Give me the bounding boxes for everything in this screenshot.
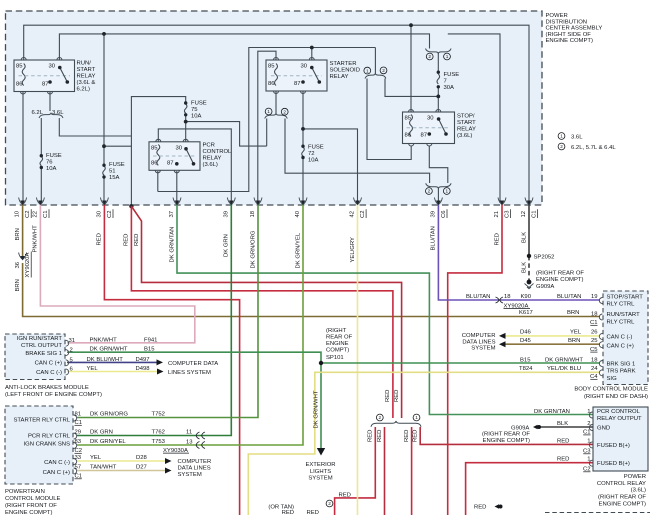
svg-text:FUSE: FUSE bbox=[109, 162, 125, 168]
svg-text:51: 51 bbox=[109, 169, 116, 175]
svg-text:(RIGHT FRONT OF: (RIGHT FRONT OF bbox=[5, 503, 57, 509]
svg-text:30: 30 bbox=[301, 64, 308, 70]
junction fuse72 tee bbox=[301, 127, 305, 131]
svg-text:30: 30 bbox=[427, 116, 434, 122]
svg-text:RED: RED bbox=[124, 234, 130, 246]
svg-text:BRN: BRN bbox=[15, 228, 21, 240]
splice dot SP2052 on BLK bbox=[527, 254, 531, 258]
svg-text:C1: C1 bbox=[532, 210, 538, 218]
junction W3/starter30 bbox=[310, 46, 314, 50]
svg-text:FUSE: FUSE bbox=[308, 145, 324, 151]
svg-text:LINES SYSTEM: LINES SYSTEM bbox=[168, 370, 211, 376]
svg-text:85: 85 bbox=[268, 64, 275, 70]
exterior lights label bbox=[305, 462, 335, 482]
relay U1 RUN/START RELAY bbox=[14, 58, 75, 95]
svg-text:CAN C (-): CAN C (-) bbox=[607, 334, 633, 340]
svg-text:1: 1 bbox=[267, 109, 270, 114]
svg-text:33: 33 bbox=[75, 455, 82, 461]
svg-text:RED: RED bbox=[307, 510, 319, 515]
svg-text:K90: K90 bbox=[521, 294, 532, 300]
svg-text:2: 2 bbox=[70, 347, 73, 353]
svg-text:ENGINE: ENGINE bbox=[326, 341, 349, 347]
svg-text:STOP/START: STOP/START bbox=[607, 295, 644, 301]
wire BRN BCM D45 CAN C(+) bbox=[506, 343, 601, 345]
svg-text:CONTROL: CONTROL bbox=[203, 149, 233, 155]
svg-text:2: 2 bbox=[378, 415, 381, 420]
svg-text:6.2L): 6.2L) bbox=[77, 87, 90, 93]
svg-text:76: 76 bbox=[46, 160, 53, 166]
svg-text:RED: RED bbox=[557, 438, 569, 444]
svg-text:85: 85 bbox=[16, 64, 23, 70]
border crossing connector symbols at PDC bottom bbox=[19, 198, 533, 205]
svg-text:DK GRN/ORG: DK GRN/ORG bbox=[90, 412, 128, 418]
svg-text:39: 39 bbox=[430, 211, 436, 218]
svg-text:87: 87 bbox=[294, 81, 301, 87]
svg-text:87: 87 bbox=[42, 82, 49, 88]
svg-text:31: 31 bbox=[69, 338, 76, 344]
svg-text:1: 1 bbox=[587, 438, 590, 444]
connector crossing pin 30 arrowhead bbox=[102, 201, 107, 206]
svg-text:BODY CONTROL MODULE: BODY CONTROL MODULE bbox=[574, 387, 648, 393]
svg-text:POWER: POWER bbox=[546, 13, 568, 19]
svg-text:TAN/WHT: TAN/WHT bbox=[90, 465, 117, 471]
wire W2a: run/start relay pin 30 rail to fuse7 brace left arm bbox=[59, 34, 429, 60]
arrow to computer data lines (PCM D28) bbox=[165, 458, 172, 464]
svg-text:85: 85 bbox=[405, 116, 412, 122]
junction dots inside PDC bbox=[102, 23, 440, 208]
svg-text:ENGINE COMPT): ENGINE COMPT) bbox=[546, 38, 593, 44]
svg-text:CAN C (-): CAN C (-) bbox=[44, 460, 70, 466]
svg-text:6.2L: 6.2L bbox=[32, 110, 44, 116]
svg-text:YEL/GRY: YEL/GRY bbox=[350, 237, 356, 263]
svg-text:PCR CONTROL: PCR CONTROL bbox=[597, 409, 641, 415]
svg-text:1: 1 bbox=[415, 415, 418, 420]
svg-text:T753: T753 bbox=[152, 439, 166, 445]
wire RED feed B to brace option1 bbox=[131, 206, 401, 418]
svg-text:RELAY: RELAY bbox=[77, 74, 96, 80]
svg-text:C2: C2 bbox=[107, 210, 113, 218]
svg-text:DISTRIBUTION: DISTRIBUTION bbox=[546, 19, 588, 25]
svg-text:PNK/WHT: PNK/WHT bbox=[33, 225, 39, 253]
splice dot SP101 bbox=[319, 361, 323, 365]
ABS module inner labels bbox=[17, 336, 63, 376]
connector crossing pin 42 wings bbox=[354, 198, 362, 205]
wire: stop/start relay pin 85 drop from W1 bbox=[410, 25, 412, 112]
svg-text:24: 24 bbox=[591, 366, 598, 372]
wire DK GRN/WHT SP101 branch to BCM BRK SIG 1 bbox=[321, 362, 600, 364]
BCM caption bbox=[574, 387, 648, 400]
svg-text:2: 2 bbox=[587, 421, 590, 427]
connector crossing pin 21 wings bbox=[498, 198, 506, 205]
svg-text:DK GRN/TAN: DK GRN/TAN bbox=[169, 227, 175, 263]
svg-text:B15: B15 bbox=[520, 357, 531, 363]
wire PNK/WHT pin22 to ABS pin31 bbox=[40, 203, 194, 343]
svg-text:COMPUTER: COMPUTER bbox=[462, 333, 496, 339]
svg-text:COMPUTER DATA: COMPUTER DATA bbox=[168, 361, 218, 367]
circled 1 and 2 legend keys bbox=[558, 133, 565, 140]
svg-text:15A: 15A bbox=[109, 175, 120, 181]
wire W2b: fuse7 brace right arm to RED pin 21 bbox=[448, 34, 500, 203]
connector crossing pin 30 wings bbox=[100, 198, 108, 205]
wire: PCR pin 86 drop bbox=[157, 171, 159, 192]
svg-text:RED: RED bbox=[494, 233, 500, 245]
svg-text:86: 86 bbox=[16, 82, 23, 88]
connector crossing pin 18 arrowhead bbox=[256, 201, 261, 206]
svg-text:FUSED B(+): FUSED B(+) bbox=[597, 443, 630, 449]
svg-text:1: 1 bbox=[560, 134, 563, 139]
svg-text:1: 1 bbox=[366, 68, 369, 73]
connector crossing pin 40 wings bbox=[299, 198, 307, 205]
svg-text:YEL: YEL bbox=[90, 455, 102, 461]
svg-text:RED: RED bbox=[377, 430, 383, 442]
svg-text:BRN: BRN bbox=[568, 338, 580, 344]
svg-text:RUN/START: RUN/START bbox=[607, 312, 641, 318]
svg-text:RELAY: RELAY bbox=[330, 74, 349, 80]
arrow from computer data lines (BCM D45) bbox=[499, 341, 506, 347]
wire RED pin21 down right side bbox=[448, 203, 502, 515]
svg-text:37: 37 bbox=[169, 211, 175, 218]
wire: fuse 7 bottom to stop/start pin 30 bbox=[437, 88, 439, 113]
svg-text:RED: RED bbox=[339, 492, 351, 498]
svg-text:(3.6L): (3.6L) bbox=[457, 133, 472, 139]
wire: red feed riser to fuse 75 bbox=[131, 97, 185, 206]
svg-text:19: 19 bbox=[591, 294, 598, 300]
svg-text:BRAKE SIG 1: BRAKE SIG 1 bbox=[25, 351, 62, 357]
svg-text:SYSTEM: SYSTEM bbox=[471, 346, 495, 352]
wire BRN pin10 to inline connector bbox=[22, 203, 24, 256]
svg-text:CAN C (+): CAN C (+) bbox=[43, 470, 70, 476]
circled option 2 and 1 at brace B4 bbox=[426, 53, 433, 60]
svg-text:C6: C6 bbox=[441, 210, 447, 218]
svg-text:30: 30 bbox=[49, 64, 56, 70]
circled option 2 at bottom RED continuation bbox=[326, 500, 333, 507]
svg-text:POWERTRAIN: POWERTRAIN bbox=[5, 489, 45, 495]
svg-text:75: 75 bbox=[191, 107, 198, 113]
wire BLK pin12 to SP2052 bbox=[528, 203, 530, 256]
svg-text:FUSE: FUSE bbox=[46, 153, 62, 159]
svg-text:T824: T824 bbox=[519, 366, 533, 372]
svg-text:SIG: SIG bbox=[607, 376, 618, 382]
svg-text:83: 83 bbox=[75, 439, 82, 445]
connector crossing pin 39 arrowhead bbox=[229, 201, 234, 206]
svg-text:START: START bbox=[457, 120, 476, 126]
svg-text:86: 86 bbox=[405, 133, 412, 139]
ground splice at bottom edge bbox=[495, 504, 500, 509]
wire DK GRN pin39 to PCM pin29 bbox=[77, 203, 231, 436]
relay U4 STOP/START RELAY bbox=[403, 110, 455, 147]
svg-text:86: 86 bbox=[151, 161, 158, 167]
svg-text:ANTI-LOCK BRAKES MODULE: ANTI-LOCK BRAKES MODULE bbox=[5, 385, 89, 391]
svg-text:RLY CTRL: RLY CTRL bbox=[607, 302, 636, 308]
svg-text:2: 2 bbox=[382, 68, 385, 73]
wire: fuse 75 bottom to PCR pin 30 bbox=[185, 116, 187, 142]
svg-text:57: 57 bbox=[75, 465, 82, 471]
svg-text:6.2L, 5.7L & 6.4L: 6.2L, 5.7L & 6.4L bbox=[571, 145, 616, 151]
brace B4 fuse7 feed options bbox=[426, 49, 452, 54]
svg-text:2: 2 bbox=[283, 109, 286, 114]
junction W1/stop-start85 bbox=[409, 23, 413, 27]
svg-text:RED: RED bbox=[404, 430, 410, 442]
PCM module inner labels bbox=[13, 417, 70, 476]
svg-text:22: 22 bbox=[32, 211, 38, 218]
svg-text:RED: RED bbox=[474, 505, 486, 511]
wire: brace B3 stem bbox=[374, 48, 376, 75]
svg-text:BLU/TAN: BLU/TAN bbox=[466, 294, 490, 300]
svg-text:3.6L: 3.6L bbox=[571, 134, 583, 140]
wire DK GRN/WHT ABS pin2 to SP101 and exterior lights bbox=[67, 352, 321, 448]
svg-text:3.6L: 3.6L bbox=[52, 110, 64, 116]
brace B5 bluetan feed options bbox=[426, 183, 451, 188]
svg-text:(RIGHT REAR OF: (RIGHT REAR OF bbox=[536, 271, 584, 277]
svg-text:SP101: SP101 bbox=[326, 355, 344, 361]
bottom cut-off dashed box bbox=[545, 512, 650, 514]
svg-text:(RIGHT REAR OF: (RIGHT REAR OF bbox=[598, 495, 646, 501]
junction fuse51/red feed branch bbox=[102, 144, 106, 148]
svg-text:RELAY: RELAY bbox=[457, 127, 476, 133]
junction fuse75 bottom bbox=[184, 120, 188, 124]
svg-text:STARTER RLY CTRL: STARTER RLY CTRL bbox=[13, 417, 70, 423]
connector crossing pin 22 arrowhead bbox=[38, 201, 43, 206]
svg-text:ENGINE COMPT): ENGINE COMPT) bbox=[483, 438, 530, 444]
svg-text:LIGHTS: LIGHTS bbox=[310, 469, 331, 475]
svg-text:IGN CRANK SNS: IGN CRANK SNS bbox=[24, 442, 71, 448]
svg-text:DK GRN/WHT: DK GRN/WHT bbox=[90, 347, 128, 353]
svg-text:(3.6L): (3.6L) bbox=[203, 162, 218, 168]
svg-text:21: 21 bbox=[494, 211, 500, 218]
circled option 2 and 1 at brace B6 bbox=[376, 414, 383, 421]
svg-text:BLK: BLK bbox=[521, 262, 527, 273]
brace B2 starter coil options bbox=[265, 113, 288, 118]
svg-text:29: 29 bbox=[75, 430, 82, 436]
svg-text:STARTER: STARTER bbox=[330, 61, 357, 67]
connector crossing pin 10 wings bbox=[19, 198, 27, 205]
svg-text:C3: C3 bbox=[505, 210, 511, 218]
wire RED feed A to brace option2 bbox=[131, 206, 393, 418]
svg-text:ENGINE COMPT): ENGINE COMPT) bbox=[536, 277, 583, 283]
svg-text:13: 13 bbox=[186, 439, 193, 445]
svg-text:YEL: YEL bbox=[570, 330, 582, 336]
svg-text:BLK: BLK bbox=[521, 232, 527, 243]
circled option 1 and 2 at brace B3 bbox=[364, 67, 371, 74]
svg-text:C2: C2 bbox=[25, 210, 31, 218]
wire BLK dashed to G909A bbox=[528, 256, 530, 281]
wire: starter coil option2 rail to brace B5 left arm bbox=[285, 119, 430, 184]
svg-text:DATA LINES: DATA LINES bbox=[178, 466, 211, 472]
wire: starter relay pin 87 through fuse 72 to pin 40 bbox=[302, 91, 304, 203]
fuse F72 bbox=[302, 147, 305, 156]
svg-text:TRS PARK: TRS PARK bbox=[607, 368, 636, 374]
wire: PCR pin 85 to DK GRN pin 39 bbox=[158, 129, 231, 203]
wire RED to FUSED B(+) C2 bbox=[466, 463, 593, 515]
wire: B3 option1 arm to stop/start pin 86 bbox=[367, 79, 411, 160]
svg-text:CAN C (+): CAN C (+) bbox=[607, 343, 634, 349]
wire YEL/GRY pin42 down off page bbox=[357, 203, 359, 515]
wire DK BLU/WHT ABS pin5 to data arrow bbox=[67, 361, 157, 363]
svg-text:(RIGHT END OF DASH): (RIGHT END OF DASH) bbox=[584, 394, 648, 400]
BCM pin stubs bbox=[599, 298, 602, 376]
svg-text:2: 2 bbox=[328, 501, 331, 506]
wire RED brace output 3 bbox=[411, 427, 413, 515]
svg-text:81: 81 bbox=[75, 412, 82, 418]
brace B6 red feed engine options bbox=[371, 421, 421, 427]
svg-text:START: START bbox=[77, 67, 96, 73]
wire W3: PCR pin 86 riser rail to starter brace bbox=[158, 48, 376, 192]
svg-text:42: 42 bbox=[350, 211, 356, 218]
svg-text:39: 39 bbox=[223, 211, 229, 218]
svg-text:RELAY OUTPUT: RELAY OUTPUT bbox=[597, 416, 642, 422]
arrow to computer data lines (ABS D498) bbox=[157, 369, 164, 375]
svg-text:(RIGHT: (RIGHT bbox=[326, 328, 347, 334]
power distribution center box bbox=[6, 11, 543, 205]
BCM pin numbers bbox=[590, 294, 598, 380]
wire RED brace output 1 bbox=[335, 427, 376, 515]
connector crossing pin 37 wings bbox=[173, 198, 181, 205]
svg-text:DK GRN/ORG: DK GRN/ORG bbox=[250, 230, 256, 268]
svg-text:T752: T752 bbox=[152, 412, 165, 418]
wire: run/start pin 86 to BRN pin 10 bbox=[22, 92, 24, 204]
svg-text:B15: B15 bbox=[144, 347, 155, 353]
BCM module box bbox=[603, 291, 648, 385]
svg-text:SOLENOID: SOLENOID bbox=[330, 68, 360, 74]
wire DK GRN/YEL pin40 to PCM pin83 bbox=[77, 203, 303, 445]
inline connector XY9020A on BRN wire bbox=[19, 253, 27, 260]
svg-text:D498: D498 bbox=[136, 366, 151, 372]
svg-text:D46: D46 bbox=[520, 330, 532, 336]
wire W1: run/start relay pin 85 rail to BLK pin 12 bbox=[24, 25, 529, 203]
wire: fuse51 branch to red feed bbox=[104, 145, 131, 147]
svg-text:ENGINE COMPT): ENGINE COMPT) bbox=[599, 502, 646, 508]
svg-text:FUSE: FUSE bbox=[191, 101, 207, 107]
svg-text:PCR: PCR bbox=[203, 143, 215, 149]
wire BLK G909A to PCR relay GND bbox=[540, 426, 593, 428]
wire YEL ABS pin6 to data arrow bbox=[67, 371, 157, 373]
svg-text:GND: GND bbox=[597, 426, 610, 432]
svg-text:YEL: YEL bbox=[87, 366, 99, 372]
svg-text:BLU/TAN: BLU/TAN bbox=[431, 226, 437, 250]
svg-text:D45: D45 bbox=[520, 338, 532, 344]
connector crossing pin 10 arrowhead bbox=[20, 201, 25, 206]
svg-text:CONTROL RELAY: CONTROL RELAY bbox=[597, 481, 646, 487]
svg-text:RELAY: RELAY bbox=[203, 156, 222, 162]
wire RED pin30 via fuse51 down left side bbox=[104, 203, 239, 515]
svg-text:BRN: BRN bbox=[15, 279, 21, 291]
svg-text:10A: 10A bbox=[191, 114, 202, 120]
wire: starter relay pin 30 drop from W3 bbox=[311, 48, 313, 61]
svg-text:REAR OF: REAR OF bbox=[326, 334, 353, 340]
relay U2 STARTER SOLENOID RELAY bbox=[266, 58, 327, 94]
svg-text:CAN C (+): CAN C (+) bbox=[35, 361, 62, 367]
svg-text:18: 18 bbox=[250, 210, 256, 217]
wire: fuse 51 feed drop from W2a bbox=[103, 34, 105, 164]
svg-text:STOP/: STOP/ bbox=[457, 114, 475, 120]
svg-text:30: 30 bbox=[96, 210, 102, 217]
connector crossing pin 39 BLU/TAN arrowhead bbox=[436, 201, 441, 206]
wire DK GRN/TAN pin37 to PCR relay output bbox=[177, 203, 593, 415]
svg-text:7: 7 bbox=[444, 79, 447, 85]
PCR power control relay box bbox=[593, 407, 648, 471]
connector crossing pin 18 wings bbox=[254, 198, 262, 205]
svg-text:DK GRN/YEL: DK GRN/YEL bbox=[295, 232, 301, 268]
ABS pin stubs bbox=[66, 340, 69, 375]
svg-text:RED: RED bbox=[413, 430, 419, 442]
wire: B1 3.6L arm to red feed bbox=[59, 118, 131, 136]
svg-text:F941: F941 bbox=[144, 337, 157, 343]
svg-text:10: 10 bbox=[15, 210, 21, 217]
svg-text:D497: D497 bbox=[136, 357, 150, 363]
svg-text:18: 18 bbox=[591, 357, 598, 363]
wire YEL BCM D46 CAN C(-) bbox=[506, 335, 601, 337]
svg-text:RED: RED bbox=[557, 456, 569, 462]
svg-text:2: 2 bbox=[428, 54, 431, 59]
svg-text:G909A: G909A bbox=[536, 284, 554, 290]
svg-text:CTRL OUTPUT: CTRL OUTPUT bbox=[21, 343, 62, 349]
svg-text:(LEFT FRONT OF ENGINE COMPT): (LEFT FRONT OF ENGINE COMPT) bbox=[5, 392, 102, 398]
arrow to exterior lights system bbox=[317, 448, 325, 456]
connector crossing pin 22 wings bbox=[36, 198, 44, 205]
svg-text:COMPUTER: COMPUTER bbox=[178, 459, 212, 465]
svg-text:POWER: POWER bbox=[624, 474, 646, 480]
svg-text:C1: C1 bbox=[43, 210, 49, 218]
svg-text:T762: T762 bbox=[152, 430, 165, 436]
svg-text:2: 2 bbox=[560, 144, 563, 149]
PCR relay caption bbox=[597, 474, 647, 508]
wire RED brace output 4 to FUSED B(+) C3 bbox=[420, 427, 592, 444]
PDC border pin numbers and connectors (rotated) bbox=[15, 210, 538, 218]
junction fuse7 bottom bbox=[436, 95, 440, 99]
svg-text:10A: 10A bbox=[308, 158, 319, 164]
wire: run/start pin 87 to brace B1 bbox=[49, 92, 51, 112]
wire: brace B5 output to BLU/TAN pin 39 bbox=[437, 189, 439, 204]
svg-text:(3.6L &: (3.6L & bbox=[77, 80, 96, 86]
svg-text:RUN/: RUN/ bbox=[77, 61, 92, 67]
svg-text:SYSTEM: SYSTEM bbox=[178, 472, 202, 478]
svg-text:SYSTEM: SYSTEM bbox=[308, 476, 332, 482]
ABS module box bbox=[5, 334, 65, 380]
svg-text:DK GRN/WHT: DK GRN/WHT bbox=[545, 357, 583, 363]
svg-text:1: 1 bbox=[587, 409, 590, 415]
inline connector 11 on DK GRN row bbox=[196, 432, 205, 439]
arrow to computer data lines (PCM D27) bbox=[165, 468, 172, 474]
circled option 1 and 2 at brace B2 bbox=[265, 108, 272, 115]
svg-text:25: 25 bbox=[591, 338, 598, 344]
svg-text:RED: RED bbox=[385, 390, 391, 402]
ground splice G909A at PCR relay GND row bbox=[533, 425, 538, 430]
wire DK GRN/ORG pin18 to PCM pin81 bbox=[77, 203, 258, 418]
svg-text:RED: RED bbox=[282, 510, 294, 515]
wire: fuse 51 to pin 30 border bbox=[103, 178, 105, 203]
wire: stop/start pin 87 to brace B5 right arm bbox=[429, 146, 448, 184]
svg-text:RED: RED bbox=[368, 430, 374, 442]
wire: fuse75 junction jog to B2 option1 bbox=[186, 122, 267, 147]
svg-text:BRN: BRN bbox=[567, 310, 579, 316]
svg-text:DK GRN/TAN: DK GRN/TAN bbox=[534, 409, 570, 415]
brace B3 starter pin30 options bbox=[365, 73, 386, 78]
connector crossing pin 21 arrowhead bbox=[500, 201, 505, 206]
svg-text:FUSE: FUSE bbox=[444, 72, 460, 78]
fuse F51 bbox=[103, 166, 106, 175]
wire RED brace output 2 bbox=[384, 427, 386, 515]
svg-text:RLY CTRL: RLY CTRL bbox=[607, 320, 636, 326]
svg-text:D27: D27 bbox=[136, 465, 147, 471]
svg-text:BRK SIG 1: BRK SIG 1 bbox=[607, 362, 636, 368]
svg-text:PCR RLY CTRL: PCR RLY CTRL bbox=[28, 433, 71, 439]
PCR relay pin stubs bbox=[589, 412, 592, 466]
wire BLU/TAN pin39 to BCM STOP/START RLY CTRL bbox=[438, 203, 600, 300]
svg-text:18: 18 bbox=[504, 294, 511, 300]
wire: B1 6.2L arm through fuse 76 to pin 22 bbox=[40, 118, 42, 203]
BCM computer data label bbox=[462, 333, 496, 352]
wire: starter relay pin 85 to DK GRN/ORG pin 18 bbox=[258, 51, 276, 203]
